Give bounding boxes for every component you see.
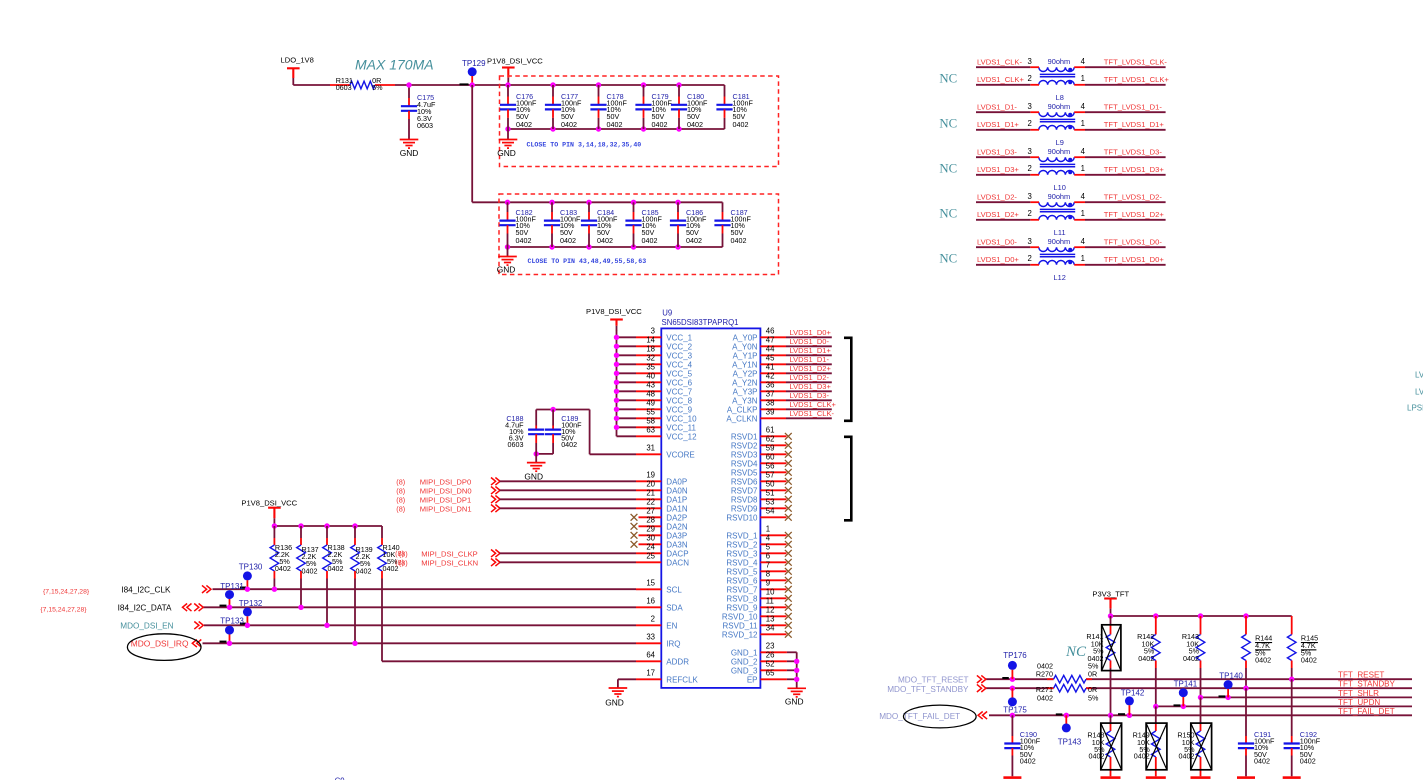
svg-text:35: 35 bbox=[646, 363, 655, 372]
svg-text:DACP: DACP bbox=[666, 549, 688, 558]
svg-text:RSVD1: RSVD1 bbox=[731, 432, 758, 441]
wire net LVDS1_D2+ (U9 output) bbox=[786, 364, 832, 373]
svg-text:NC: NC bbox=[939, 252, 957, 266]
wire net LVDS1_D0+ (U9 output) bbox=[786, 328, 832, 337]
svg-text:12: 12 bbox=[766, 606, 775, 615]
svg-text:VCC_6: VCC_6 bbox=[666, 378, 692, 387]
svg-text:TFT_LVDS1_D0+: TFT_LVDS1_D0+ bbox=[1104, 255, 1165, 264]
svg-text:22: 22 bbox=[646, 498, 655, 507]
resistor R137 2.2K pull-up bbox=[297, 526, 319, 607]
svg-text:RSVD4: RSVD4 bbox=[731, 459, 758, 468]
capacitor C192 100nF bbox=[1284, 679, 1321, 776]
ground below box2 bbox=[497, 247, 517, 275]
svg-text:VCC_12: VCC_12 bbox=[666, 432, 697, 441]
svg-text:NC: NC bbox=[939, 72, 957, 86]
svg-text:LVDS1_D1+: LVDS1_D1+ bbox=[790, 346, 832, 355]
wire top rail junctions box2 bbox=[505, 200, 681, 205]
svg-text:LVDS1_CLK-: LVDS1_CLK- bbox=[790, 409, 835, 418]
svg-text:RSVD8: RSVD8 bbox=[731, 495, 758, 504]
svg-text:DA2P: DA2P bbox=[666, 513, 687, 522]
svg-text:DA0P: DA0P bbox=[666, 477, 687, 486]
wire net LVDS1_D1- (U9 output) bbox=[786, 355, 832, 364]
wire net TFT_STANDBY bbox=[887, 680, 1412, 694]
svg-text:A_Y2N: A_Y2N bbox=[732, 378, 758, 387]
wire net LVDS1_CLK- (U9 output) bbox=[786, 409, 834, 418]
svg-text:VCC_9: VCC_9 bbox=[666, 405, 692, 414]
svg-text:A_Y0N: A_Y0N bbox=[732, 342, 758, 351]
svg-text:LV: LV bbox=[1415, 371, 1423, 380]
test point TP175 bbox=[1003, 688, 1027, 714]
svg-text:3: 3 bbox=[1028, 237, 1032, 246]
svg-text:SN65DSI83TPAPRQ1: SN65DSI83TPAPRQ1 bbox=[662, 318, 739, 327]
test point TP142 bbox=[1118, 689, 1145, 716]
svg-text:59: 59 bbox=[766, 444, 775, 453]
svg-text:26: 26 bbox=[766, 651, 775, 660]
svg-text:0402: 0402 bbox=[1138, 654, 1154, 663]
svg-text:61: 61 bbox=[766, 426, 775, 435]
wire net I64_I2C_CLK bbox=[43, 585, 636, 595]
junction dots on main rail bbox=[406, 82, 681, 87]
svg-text:I84_I2C_CLK: I84_I2C_CLK bbox=[121, 585, 171, 594]
no-connect label NC group D1 bbox=[939, 117, 957, 131]
svg-text:23: 23 bbox=[766, 642, 775, 651]
wire net MIPI_DSI_CLKN bbox=[399, 559, 636, 568]
svg-text:U9: U9 bbox=[662, 309, 672, 318]
svg-text:0402: 0402 bbox=[1134, 751, 1150, 760]
wire net LVDS1_D2- bbox=[976, 193, 1030, 203]
dashed box CLOSE TO PIN 43,48,49,55,58,63 bbox=[499, 194, 779, 275]
svg-text:GND_2: GND_2 bbox=[731, 657, 758, 666]
svg-text:TFT_STANDBY: TFT_STANDBY bbox=[1338, 680, 1396, 689]
svg-text:A_Y1N: A_Y1N bbox=[732, 360, 758, 369]
ground at REFCLK bbox=[605, 688, 627, 708]
svg-text:13: 13 bbox=[766, 615, 775, 624]
svg-text:65: 65 bbox=[766, 669, 775, 678]
svg-text:44: 44 bbox=[766, 345, 775, 354]
svg-text:VCC_11: VCC_11 bbox=[666, 423, 696, 432]
wire net TFT_LVDS1_D1+ bbox=[1085, 120, 1166, 130]
svg-text:RSVD3: RSVD3 bbox=[731, 450, 758, 459]
ground below C192 bbox=[1283, 776, 1301, 779]
svg-text:GND: GND bbox=[497, 265, 516, 275]
svg-text:0R: 0R bbox=[1088, 670, 1097, 679]
svg-text:RSVD9: RSVD9 bbox=[731, 504, 758, 513]
svg-text:LVDS1_D0+: LVDS1_D0+ bbox=[977, 255, 1019, 264]
svg-text:MDO_DSI_EN: MDO_DSI_EN bbox=[120, 622, 173, 631]
svg-text:P3V3_TFT: P3V3_TFT bbox=[1092, 589, 1129, 598]
svg-text:7: 7 bbox=[766, 561, 770, 570]
svg-text:(8): (8) bbox=[396, 487, 405, 496]
svg-text:GND: GND bbox=[524, 472, 543, 482]
wire net LVDS1_D2- (U9 output) bbox=[786, 373, 832, 382]
svg-text:4: 4 bbox=[1081, 237, 1086, 246]
svg-text:VCC_5: VCC_5 bbox=[666, 369, 692, 378]
svg-text:GND: GND bbox=[785, 697, 804, 707]
svg-text:2: 2 bbox=[1028, 119, 1032, 128]
svg-text:4: 4 bbox=[1081, 57, 1086, 66]
svg-text:P1V8_DSI_VCC: P1V8_DSI_VCC bbox=[586, 307, 642, 316]
resistor R150 10K DNP pull-down bbox=[1177, 697, 1211, 776]
svg-text:RSVD_6: RSVD_6 bbox=[726, 576, 758, 585]
wire net LVDS1_CLK- bbox=[976, 58, 1030, 68]
dashed box CLOSE TO PIN 3,14,18,32,35,40 bbox=[500, 76, 779, 167]
wire net MDO_DSI_IRQ (circled) bbox=[127, 634, 636, 661]
wire net LVDS1_D0+ bbox=[976, 255, 1030, 265]
svg-text:TP132: TP132 bbox=[239, 599, 263, 608]
svg-text:5%: 5% bbox=[1088, 694, 1099, 703]
svg-text:18: 18 bbox=[646, 345, 655, 354]
svg-text:LVDS1_D0-: LVDS1_D0- bbox=[977, 238, 1017, 247]
no-connect label NC group D0 bbox=[939, 252, 957, 266]
svg-text:MIPI_DSI_DP0: MIPI_DSI_DP0 bbox=[420, 478, 472, 487]
svg-text:(8): (8) bbox=[395, 549, 404, 558]
svg-text:LPSP: LPSP bbox=[1407, 404, 1423, 413]
common-mode choke L12 90ohm (D0) bbox=[1028, 237, 1086, 282]
svg-text:EP: EP bbox=[747, 675, 758, 684]
capacitor C188 4.7uF bbox=[505, 410, 544, 454]
common-mode choke L10 90ohm (D3) bbox=[1028, 147, 1086, 192]
svg-text:90ohm: 90ohm bbox=[1048, 102, 1071, 111]
svg-text:TFT_LVDS1_CLK-: TFT_LVDS1_CLK- bbox=[1104, 58, 1168, 67]
svg-text:38: 38 bbox=[766, 399, 775, 408]
svg-text:19: 19 bbox=[646, 471, 655, 480]
svg-text:VCC_7: VCC_7 bbox=[666, 387, 692, 396]
svg-text:1: 1 bbox=[1081, 74, 1085, 83]
svg-text:0402: 0402 bbox=[686, 236, 702, 245]
capacitor C1711 100nF bbox=[716, 92, 753, 129]
svg-text:0402: 0402 bbox=[1255, 656, 1271, 665]
svg-text:1: 1 bbox=[1081, 209, 1085, 218]
test point TP131 bbox=[220, 582, 245, 610]
svg-text:4: 4 bbox=[1081, 192, 1086, 201]
svg-text:TFT_LVDS1_D2+: TFT_LVDS1_D2+ bbox=[1104, 210, 1165, 219]
svg-text:4: 4 bbox=[1081, 147, 1086, 156]
svg-text:MIPI_DSI_CLKN: MIPI_DSI_CLKN bbox=[421, 559, 478, 568]
resistor R139 2.2K pull-up bbox=[351, 526, 373, 643]
svg-text:A_Y1P: A_Y1P bbox=[733, 351, 758, 360]
capacitor C185 100nF bbox=[625, 202, 662, 247]
clipped net labels at right edge bbox=[1407, 371, 1423, 413]
svg-text:CLOSE TO PIN 3,14,18,32,35,40: CLOSE TO PIN 3,14,18,32,35,40 bbox=[527, 142, 642, 149]
test point TP133 bbox=[220, 616, 245, 646]
svg-text:0402: 0402 bbox=[516, 236, 532, 245]
svg-text:LVDS1_CLK-: LVDS1_CLK- bbox=[977, 58, 1022, 67]
svg-text:GND: GND bbox=[400, 148, 419, 158]
svg-text:RSVD_2: RSVD_2 bbox=[726, 540, 758, 549]
svg-text:0402: 0402 bbox=[733, 120, 749, 129]
svg-text:0603: 0603 bbox=[417, 121, 433, 130]
power symbol LDO_1V8 bbox=[281, 56, 314, 86]
svg-text:63: 63 bbox=[646, 426, 655, 435]
ground below C191 bbox=[1237, 776, 1255, 779]
ground below C188/C189 bbox=[524, 454, 545, 482]
svg-text:LVDS1_D0-: LVDS1_D0- bbox=[790, 337, 830, 346]
svg-text:16: 16 bbox=[646, 597, 655, 606]
svg-text:L8: L8 bbox=[1056, 93, 1064, 102]
wire bottom rail of box1 caps bbox=[505, 126, 724, 131]
svg-text:LVDS1_D2+: LVDS1_D2+ bbox=[790, 364, 832, 373]
svg-text:RSVD5: RSVD5 bbox=[731, 468, 758, 477]
svg-text:TP130: TP130 bbox=[239, 563, 263, 572]
svg-text:1: 1 bbox=[1081, 119, 1085, 128]
svg-text:RSVD_9: RSVD_9 bbox=[726, 603, 758, 612]
svg-text:LDO_1V8: LDO_1V8 bbox=[281, 56, 314, 65]
power symbol P1V8_DSI_VCC (pull-ups) bbox=[241, 498, 297, 526]
test point TP132 bbox=[239, 599, 263, 628]
wire net REFCLK to ground bbox=[618, 679, 636, 688]
svg-text:LVDS1_D3+: LVDS1_D3+ bbox=[790, 382, 832, 391]
wire net TFT_LVDS1_CLK+ bbox=[1085, 75, 1169, 85]
wire net ADDR from R140 bbox=[382, 660, 636, 662]
svg-text:RSVD10: RSVD10 bbox=[726, 513, 758, 522]
svg-text:64: 64 bbox=[646, 651, 655, 660]
capacitor C189 100nF bbox=[545, 410, 582, 454]
power symbol P1V8_DSI_VCC (top) bbox=[487, 56, 543, 85]
svg-text:0402: 0402 bbox=[607, 120, 623, 129]
svg-text:RSVD_7: RSVD_7 bbox=[726, 585, 758, 594]
svg-text:RSVD6: RSVD6 bbox=[731, 477, 758, 486]
svg-text:30: 30 bbox=[646, 534, 655, 543]
U9 left pin names bbox=[666, 333, 698, 684]
svg-text:39: 39 bbox=[766, 408, 775, 417]
ground below box1 bbox=[497, 129, 517, 158]
svg-text:47: 47 bbox=[766, 336, 775, 345]
wire net LVDS1_D3+ bbox=[976, 165, 1030, 175]
bracket right of LVDS outputs bbox=[844, 338, 851, 421]
ground below C190 bbox=[1003, 776, 1021, 779]
svg-text:TFT_FAIL_DET: TFT_FAIL_DET bbox=[1338, 707, 1395, 716]
svg-text:2: 2 bbox=[1028, 164, 1032, 173]
capacitor C183 100nF bbox=[544, 202, 581, 247]
svg-text:0402: 0402 bbox=[1179, 751, 1195, 760]
svg-text:1: 1 bbox=[1081, 164, 1085, 173]
wire net MIPI_DSI_DP0 bbox=[396, 478, 636, 487]
svg-text:15: 15 bbox=[646, 579, 655, 588]
svg-text:21: 21 bbox=[646, 489, 655, 498]
svg-text:LVDS1_D2+: LVDS1_D2+ bbox=[977, 210, 1019, 219]
op-amp/bridge IC U9 SN65DSI83TPAPRQ1 body bbox=[661, 309, 760, 688]
svg-text:0603: 0603 bbox=[508, 440, 524, 449]
svg-text:MIPI_DSI_DP1: MIPI_DSI_DP1 bbox=[420, 496, 472, 505]
svg-text:56: 56 bbox=[766, 462, 775, 471]
svg-text:ADDR: ADDR bbox=[666, 657, 689, 666]
resistor R136 2.2K pull-up bbox=[270, 526, 292, 589]
svg-text:{7,15,24,27,28}: {7,15,24,27,28} bbox=[40, 607, 87, 614]
test point TP140 bbox=[1219, 671, 1244, 697]
svg-text:L9: L9 bbox=[1056, 138, 1064, 147]
svg-text:RSVD2: RSVD2 bbox=[731, 441, 758, 450]
svg-text:37: 37 bbox=[766, 390, 775, 399]
svg-text:MDO_TFT_RESET: MDO_TFT_RESET bbox=[898, 676, 969, 685]
wire net I64_I2C_DATA bbox=[40, 604, 636, 614]
svg-text:MDO_TFT_STANDBY: MDO_TFT_STANDBY bbox=[887, 685, 969, 694]
svg-text:LVDS1_D3+: LVDS1_D3+ bbox=[977, 165, 1019, 174]
capacitor C177 100nF bbox=[545, 85, 582, 129]
svg-text:SCL: SCL bbox=[666, 585, 682, 594]
wire net LVDS1_D3- bbox=[976, 148, 1030, 158]
svg-text:0402: 0402 bbox=[516, 120, 532, 129]
svg-text:25: 25 bbox=[646, 552, 655, 561]
svg-text:LVDS1_D1-: LVDS1_D1- bbox=[977, 103, 1017, 112]
svg-text:TP143: TP143 bbox=[1058, 737, 1082, 746]
svg-text:(8): (8) bbox=[396, 478, 405, 487]
test point TP143 bbox=[1056, 713, 1082, 746]
wire net TFT_LVDS1_D2+ bbox=[1085, 210, 1166, 220]
U9 right pin names bbox=[722, 333, 758, 684]
svg-text:0402: 0402 bbox=[560, 236, 576, 245]
resistor R141 10K DNP bbox=[1086, 616, 1121, 715]
wire net TFT_FAIL_DET / MDO_TFT_FAIL_DET bbox=[879, 705, 1412, 728]
svg-text:90ohm: 90ohm bbox=[1048, 147, 1071, 156]
svg-text:58: 58 bbox=[646, 417, 655, 426]
svg-text:RSVD7: RSVD7 bbox=[731, 486, 758, 495]
text note MAX 170MA bbox=[355, 57, 434, 73]
svg-text:4: 4 bbox=[1081, 102, 1086, 111]
resistor R140 10K pull-up bbox=[378, 526, 400, 661]
svg-text:6: 6 bbox=[766, 552, 770, 561]
svg-text:5: 5 bbox=[766, 543, 771, 552]
svg-text:20: 20 bbox=[646, 480, 655, 489]
svg-text:54: 54 bbox=[766, 507, 775, 516]
svg-text:0402: 0402 bbox=[1254, 756, 1270, 765]
svg-text:41: 41 bbox=[766, 363, 775, 372]
svg-text:VCC_10: VCC_10 bbox=[666, 414, 697, 423]
capacitor C191 100nF bbox=[1238, 688, 1275, 776]
wire feed from TP129 node down to second cap bank bbox=[472, 85, 722, 202]
svg-text:28: 28 bbox=[646, 516, 655, 525]
svg-text:0402: 0402 bbox=[1020, 756, 1036, 765]
svg-text:9: 9 bbox=[766, 579, 770, 588]
svg-text:DA1N: DA1N bbox=[666, 504, 688, 513]
svg-text:LVDS1_D2-: LVDS1_D2- bbox=[977, 193, 1017, 202]
svg-text:SDA: SDA bbox=[666, 603, 683, 612]
svg-text:46: 46 bbox=[766, 327, 775, 336]
svg-text:TFT_LVDS1_D1+: TFT_LVDS1_D1+ bbox=[1104, 120, 1165, 129]
power symbol P1V8_DSI_VCC (at U9) bbox=[586, 307, 642, 331]
svg-text:8: 8 bbox=[766, 570, 770, 579]
svg-text:(8): (8) bbox=[396, 505, 405, 514]
svg-text:MIPI_DSI_DN0: MIPI_DSI_DN0 bbox=[420, 487, 472, 496]
svg-text:60: 60 bbox=[766, 453, 775, 462]
svg-text:GND: GND bbox=[497, 148, 516, 158]
svg-text:VCC_3: VCC_3 bbox=[666, 351, 692, 360]
svg-text:GND_1: GND_1 bbox=[731, 648, 758, 657]
svg-text:C9: C9 bbox=[335, 777, 345, 780]
svg-text:42: 42 bbox=[766, 372, 775, 381]
resistor R145 4.7K bbox=[1287, 616, 1318, 679]
svg-text:RSVD_5: RSVD_5 bbox=[726, 567, 758, 576]
wire net LVDS1_CLK+ bbox=[976, 75, 1030, 85]
svg-text:LVDS1_D1+: LVDS1_D1+ bbox=[977, 120, 1019, 129]
svg-text:53: 53 bbox=[766, 498, 775, 507]
svg-text:MDO_DSI_IRQ: MDO_DSI_IRQ bbox=[131, 639, 189, 649]
svg-text:2: 2 bbox=[1028, 254, 1032, 263]
svg-text:3: 3 bbox=[1028, 57, 1032, 66]
svg-text:CLOSE TO PIN 43,48,49,55,58,6: CLOSE TO PIN 43,48,49,55,58,63 bbox=[528, 258, 647, 265]
wire net TFT_UPDN bbox=[1153, 698, 1412, 709]
svg-text:L11: L11 bbox=[1054, 228, 1066, 237]
svg-text:LVDS1_D0+: LVDS1_D0+ bbox=[790, 328, 832, 337]
svg-text:0402: 0402 bbox=[561, 440, 577, 449]
wire net MIPI_DSI_DN0 bbox=[396, 487, 636, 496]
svg-text:RSVD_8: RSVD_8 bbox=[726, 594, 758, 603]
svg-text:NC: NC bbox=[1065, 644, 1087, 660]
ground at U9 right bbox=[785, 688, 806, 706]
svg-text:VCC_8: VCC_8 bbox=[666, 396, 692, 405]
svg-text:LV: LV bbox=[1415, 388, 1423, 397]
svg-text:GND: GND bbox=[605, 698, 624, 708]
U9 right pin stubs bbox=[760, 337, 787, 679]
svg-text:2: 2 bbox=[651, 615, 655, 624]
svg-text:52: 52 bbox=[766, 660, 775, 669]
svg-text:VCC_2: VCC_2 bbox=[666, 342, 692, 351]
svg-text:LVDS1_D2-: LVDS1_D2- bbox=[790, 373, 830, 382]
svg-text:RSVD_11: RSVD_11 bbox=[723, 621, 759, 630]
clipped designator at bottom edge bbox=[335, 777, 345, 780]
wire net P3V3_TFT rail bbox=[1108, 613, 1292, 618]
wire net MIPI_DSI_DN1 bbox=[396, 505, 636, 514]
svg-text:90ohm: 90ohm bbox=[1048, 57, 1071, 66]
resistor R148 10K DNP pull-down bbox=[1087, 715, 1121, 776]
common-mode choke L8 90ohm (CLK) bbox=[1028, 57, 1086, 102]
svg-text:DA0N: DA0N bbox=[666, 486, 688, 495]
svg-text:0402: 0402 bbox=[302, 566, 318, 575]
svg-text:MAX 170MA: MAX 170MA bbox=[355, 57, 434, 73]
svg-text:L10: L10 bbox=[1054, 183, 1066, 192]
svg-text:3: 3 bbox=[1028, 147, 1032, 156]
svg-text:43: 43 bbox=[646, 381, 655, 390]
svg-text:TFT_RESET: TFT_RESET bbox=[1338, 671, 1384, 680]
no-connect label NC at R141 bbox=[1065, 644, 1087, 660]
svg-text:RSVD_3: RSVD_3 bbox=[726, 549, 758, 558]
wire net MIPI_DSI_DP1 bbox=[396, 496, 636, 505]
svg-text:A_CLKP: A_CLKP bbox=[727, 405, 758, 414]
capacitor C187 100nF bbox=[714, 202, 751, 247]
svg-text:TP133: TP133 bbox=[220, 616, 244, 625]
svg-text:LVDS1_CLK+: LVDS1_CLK+ bbox=[977, 75, 1024, 84]
svg-text:P1V8_DSI_VCC: P1V8_DSI_VCC bbox=[487, 56, 543, 65]
wire net TFT_SHLR bbox=[1198, 689, 1412, 700]
svg-text:TP175: TP175 bbox=[1003, 705, 1027, 714]
svg-text:DA3N: DA3N bbox=[666, 540, 688, 549]
svg-text:LVDS1_D1-: LVDS1_D1- bbox=[790, 355, 830, 364]
svg-text:A_Y3P: A_Y3P bbox=[733, 387, 758, 396]
wire net LVDS1_D3+ (U9 output) bbox=[786, 382, 832, 391]
svg-text:90ohm: 90ohm bbox=[1048, 237, 1071, 246]
wire net LVDS1_D3- (U9 output) bbox=[786, 391, 832, 400]
svg-text:RSVD_12: RSVD_12 bbox=[722, 630, 758, 639]
svg-text:LVDS1_D3-: LVDS1_D3- bbox=[790, 391, 830, 400]
wire net LVDS1_D1+ bbox=[976, 120, 1030, 130]
wire net LVDS1_CLK+ (U9 output) bbox=[786, 400, 836, 409]
U9 left pin numbers bbox=[646, 327, 655, 678]
svg-text:P1V8_DSI_VCC: P1V8_DSI_VCC bbox=[241, 498, 297, 507]
wire net TFT_LVDS1_D0+ bbox=[1085, 255, 1166, 265]
svg-text:36: 36 bbox=[766, 381, 775, 390]
svg-text:MIPI_DSI_CLKP: MIPI_DSI_CLKP bbox=[421, 550, 478, 559]
svg-text:31: 31 bbox=[646, 444, 655, 453]
capacitor C1710 100nF bbox=[671, 85, 708, 129]
capacitor C179 100nF bbox=[635, 85, 672, 129]
wire net TFT_LVDS1_D2- bbox=[1085, 193, 1166, 203]
svg-text:TP142: TP142 bbox=[1121, 689, 1145, 698]
svg-text:DA3P: DA3P bbox=[666, 531, 687, 540]
capacitor C176 100nF bbox=[500, 85, 537, 129]
wire net TFT_LVDS1_D3+ bbox=[1085, 165, 1166, 175]
capacitor C190 100nF bbox=[1004, 715, 1040, 776]
svg-text:34: 34 bbox=[766, 624, 775, 633]
ground below R149 bbox=[1146, 776, 1166, 779]
